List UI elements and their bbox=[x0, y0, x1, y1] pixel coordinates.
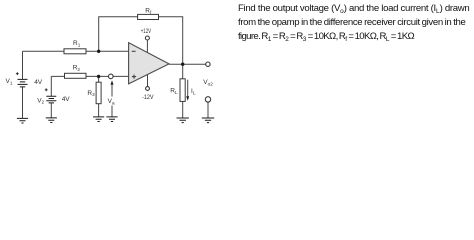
svg-text:Vo2: Vo2 bbox=[203, 79, 213, 87]
svg-text:R2: R2 bbox=[73, 65, 81, 73]
svg-text:-12V: -12V bbox=[142, 94, 154, 101]
svg-text:+12V: +12V bbox=[141, 28, 152, 35]
svg-text:Va: Va bbox=[108, 98, 115, 105]
svg-text:RL: RL bbox=[170, 87, 178, 95]
svg-text:V2: V2 bbox=[37, 97, 44, 104]
svg-text:R3: R3 bbox=[87, 90, 95, 97]
svg-text:V1: V1 bbox=[6, 78, 13, 86]
svg-text:IL: IL bbox=[191, 88, 196, 96]
svg-text:Rf: Rf bbox=[145, 7, 152, 15]
svg-text:4V: 4V bbox=[34, 79, 43, 86]
svg-text:4V: 4V bbox=[62, 96, 71, 103]
svg-text:R1: R1 bbox=[73, 40, 81, 48]
